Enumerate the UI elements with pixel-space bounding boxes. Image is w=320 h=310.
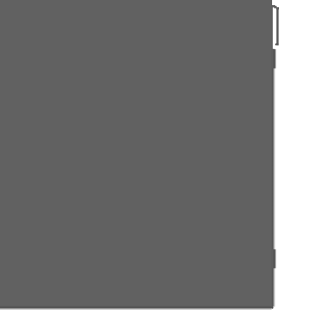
right edge bump 1 xyxy=(271,49,276,68)
bottom-right shadow corner xyxy=(272,307,274,309)
bottom edge shadow gradient xyxy=(0,305,272,310)
right edge bump 2 xyxy=(271,249,276,268)
serif foot of vertical line xyxy=(275,43,278,45)
white slot top-right (covers shadow) xyxy=(272,0,279,5)
top-right stepped notch xyxy=(272,5,275,7)
right edge shadow gradient xyxy=(271,0,276,307)
thin vertical line top right xyxy=(276,9,278,46)
